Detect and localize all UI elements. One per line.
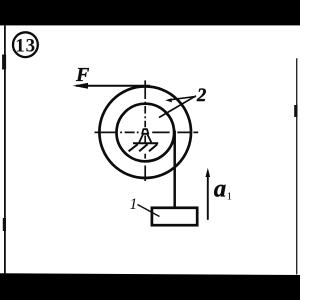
svg-text:1: 1 xyxy=(130,196,138,213)
page edge blob right xyxy=(294,105,297,117)
page edge blob left upper xyxy=(2,55,6,70)
page edge blob left lower xyxy=(3,218,6,231)
acceleration a1 arrow line xyxy=(207,174,209,220)
svg-text:F: F xyxy=(75,64,90,86)
pivot triangle left leg xyxy=(139,134,143,142)
svg-text:2: 2 xyxy=(196,86,206,106)
pivot hatch stroke 2 xyxy=(139,144,147,151)
page edge line right xyxy=(296,58,297,274)
label 2 leader arrowhead xyxy=(165,98,172,102)
label 1 leader line xyxy=(138,205,160,217)
label 2 leader diagonal to inner disc xyxy=(159,96,196,118)
scan bottom black bar xyxy=(0,273,300,300)
horizontal center line (dash-dot) of pulley xyxy=(95,131,199,133)
pivot hatch stroke 1 xyxy=(129,144,138,151)
acceleration a1 arrowhead xyxy=(206,168,211,177)
svg-text:1: 1 xyxy=(227,190,233,202)
pivot pin xyxy=(142,129,148,134)
pivot triangle right leg xyxy=(147,134,151,142)
problem number badge circle xyxy=(13,32,38,57)
pivot hatch stroke 3 xyxy=(149,144,157,151)
label 2 leader to rim with arrowhead xyxy=(168,97,196,100)
force F arrow line xyxy=(76,85,150,87)
svg-text:a: a xyxy=(214,175,227,202)
page edge line left xyxy=(4,25,6,274)
scan top black bar xyxy=(0,0,300,25)
force F arrowhead xyxy=(73,83,89,89)
svg-text:13: 13 xyxy=(15,35,36,56)
vertical center line (dash-dot) of pulley xyxy=(144,80,146,181)
pivot base line xyxy=(133,142,158,144)
block 1 rectangle xyxy=(152,208,197,225)
pulley inner circle xyxy=(117,104,175,162)
pulley outer circle xyxy=(99,86,191,178)
rope from inner pulley to block xyxy=(173,131,176,208)
